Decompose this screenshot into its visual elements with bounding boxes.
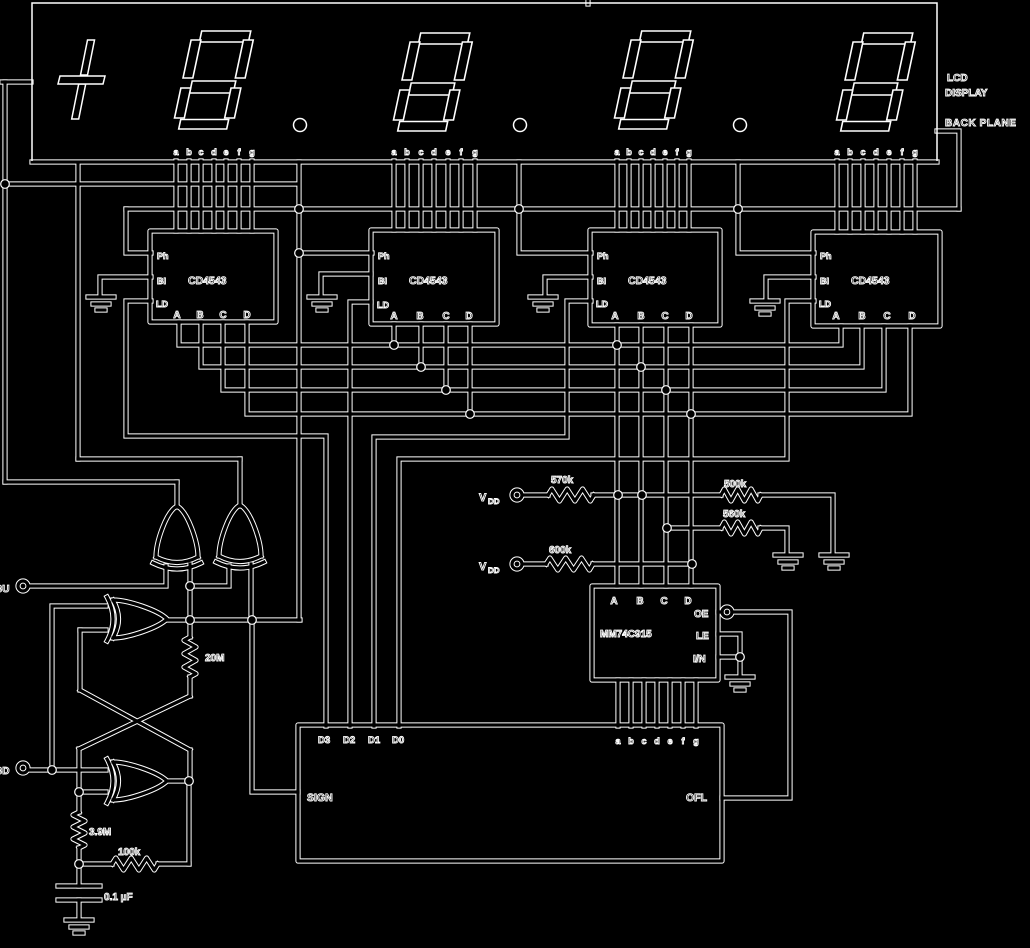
svg-text:DISPLAY: DISPLAY	[945, 88, 988, 99]
decimal point 2	[514, 119, 527, 132]
svg-text:D2: D2	[343, 735, 355, 746]
svg-text:A: A	[173, 310, 180, 321]
terminal VDD2	[512, 559, 522, 569]
input terminal labels	[0, 584, 9, 777]
svg-text:V: V	[479, 492, 487, 504]
svg-text:Ph: Ph	[597, 251, 609, 261]
wire: BCD bus A y345	[179, 322, 841, 345]
svg-text:A: A	[611, 311, 618, 322]
svg-text:D: D	[685, 311, 692, 322]
xor gate B (up)	[216, 505, 264, 568]
svg-text:C: C	[883, 311, 890, 322]
wire: MM74C915 outputs a-g	[618, 680, 696, 726]
VDD labels	[479, 492, 500, 575]
svg-text:BI: BI	[820, 276, 829, 286]
svg-text:MM74C915: MM74C915	[600, 629, 652, 640]
svg-text:D: D	[684, 596, 691, 607]
resistor value labels	[89, 475, 747, 903]
wire: gate A right input drop	[189, 564, 191, 620]
terminal VDD1	[512, 490, 522, 500]
svg-text:A: A	[390, 311, 397, 322]
wire: VDD2 600k chain	[523, 563, 692, 565]
svg-text:CD4543: CD4543	[851, 275, 890, 287]
wire: gate C upper input from D line	[52, 606, 106, 770]
wire: cross diagonal 1	[79, 696, 190, 792]
svg-text:DD: DD	[488, 566, 500, 575]
terminal D	[18, 763, 28, 773]
ground G1	[88, 297, 114, 310]
wire: U input line	[30, 566, 166, 586]
svg-text:B: B	[196, 310, 203, 321]
wire: VDD1 570k 500k chain	[523, 495, 833, 554]
wire: left rail x5	[4, 82, 6, 482]
svg-text:D3: D3	[318, 735, 330, 746]
segment letters under digits	[173, 147, 917, 746]
ground G3	[530, 297, 556, 310]
wire: segment bundle digit4	[837, 161, 915, 232]
wire: 20M leads	[189, 620, 191, 696]
wire: cross diagonal 2	[80, 630, 190, 781]
wire: 560k branch	[666, 528, 787, 554]
wire: segment bundle digit2	[394, 161, 475, 230]
svg-text:C: C	[661, 311, 668, 322]
wire: y482 to gate A output	[5, 481, 177, 483]
wire: 3.9M leads	[78, 792, 80, 864]
svg-text:B: B	[858, 311, 865, 322]
svg-text:B: B	[416, 311, 423, 322]
wire: gate A output drop	[176, 482, 178, 507]
svg-text:V: V	[479, 561, 487, 573]
wire: BCD bus C y390	[223, 322, 884, 390]
resistor R3 560k	[721, 522, 761, 534]
chip U4 CD4543 (digit 4)	[813, 232, 940, 326]
LCD display outline	[32, 3, 937, 161]
svg-text:C: C	[442, 311, 449, 322]
wire: segment bundle digit1	[176, 161, 252, 231]
wire: gate A dot to gate B left input	[190, 566, 229, 586]
plus sign	[58, 40, 105, 119]
svg-text:BD: BD	[0, 766, 9, 777]
decimal point 1	[294, 119, 307, 132]
wire: SIGN line	[252, 620, 298, 792]
chip1 labels	[156, 251, 832, 310]
wire: BI3 to ground	[545, 277, 591, 296]
wire: BCD bus B y367	[201, 322, 862, 367]
svg-text:A: A	[832, 311, 839, 322]
MM74C915 labels	[600, 596, 709, 665]
svg-text:Ph: Ph	[157, 251, 169, 261]
wire: LD2 to D2	[350, 302, 371, 726]
digit 3	[612, 31, 695, 129]
wire: decimal point 3 vertical and Ph chip4	[738, 162, 814, 253]
svg-text:BI: BI	[378, 276, 387, 286]
wire: chip3 ABCD to MM74C915	[617, 325, 691, 586]
svg-text:LD: LD	[156, 299, 168, 309]
wire: sign segment x78	[77, 163, 79, 459]
wire: display bottom border	[32, 161, 937, 163]
svg-text:D0: D0	[392, 735, 404, 746]
svg-text:CD4543: CD4543	[628, 275, 667, 287]
svg-text:D: D	[908, 311, 915, 322]
svg-text:100k: 100k	[118, 847, 141, 858]
svg-text:560k: 560k	[723, 509, 746, 520]
svg-text:C: C	[660, 596, 667, 607]
wire: Ph chip2	[299, 252, 372, 254]
wire: LE I/N tie to ground	[718, 634, 740, 676]
chip U1 CD4543 (digit 1)	[150, 231, 276, 322]
svg-text:OFL: OFL	[686, 792, 708, 804]
wire: y459 to gate B output	[78, 458, 240, 460]
wire: segment bundle digit3	[617, 161, 689, 230]
ground G7	[727, 677, 753, 690]
display labels	[945, 73, 1017, 129]
wire: BI1 to ground	[100, 277, 151, 296]
wire: BI2 to ground	[321, 274, 371, 296]
svg-text:B: B	[636, 596, 643, 607]
svg-text:CD4543: CD4543	[409, 275, 448, 287]
ground G2	[309, 297, 335, 310]
wire: LD4 to D0	[399, 301, 814, 726]
wire: gate B output drop	[239, 459, 241, 506]
svg-text:LD: LD	[596, 299, 608, 309]
wire: top stub	[587, 0, 589, 4]
wire: decimal point 1 / backplane vertical x299	[298, 162, 300, 620]
wire: chip2 ABCD taps	[394, 324, 470, 414]
wire: backplane from display right	[937, 131, 959, 209]
wire: gate B right input drop	[250, 564, 252, 620]
svg-text:LE: LE	[696, 631, 709, 642]
resistor R4 600k	[546, 558, 593, 570]
svg-text:BACK PLANE: BACK PLANE	[945, 118, 1017, 129]
ground G6	[775, 555, 801, 568]
xor gate C (right)	[107, 597, 167, 641]
chip U2 CD4543 (digit 2)	[371, 230, 497, 324]
resistor R5 20M	[184, 637, 196, 677]
svg-text:570k: 570k	[551, 475, 574, 486]
ground G5	[821, 555, 847, 568]
svg-text:LD: LD	[819, 299, 831, 309]
decimal point 3	[734, 119, 747, 132]
svg-text:500k: 500k	[724, 479, 747, 490]
svg-text:600k: 600k	[549, 545, 572, 556]
wire: plus-sign feed y82	[2, 81, 31, 83]
ground G4	[752, 301, 778, 314]
wire: gate C output y620	[167, 619, 300, 621]
svg-text:I/N: I/N	[693, 654, 706, 665]
svg-text:OE: OE	[694, 609, 709, 620]
wire: LD3 to D1	[374, 301, 591, 726]
wire: D input line	[30, 769, 106, 771]
wire: gate D lower input	[79, 791, 106, 793]
wire: BI4 to ground	[766, 277, 814, 300]
wire: 100k right riser	[188, 781, 190, 864]
chip U5 MM74C915	[592, 586, 718, 680]
wire: BCD bus D y414	[247, 322, 910, 414]
svg-text:BI: BI	[157, 276, 166, 286]
wire: horizontal y184	[5, 183, 298, 185]
wire: capacitor leads	[78, 864, 80, 919]
wire: OE to OFL	[718, 612, 790, 798]
svg-text:D: D	[465, 311, 472, 322]
svg-text:DD: DD	[488, 497, 500, 506]
xor gate A (up)	[153, 506, 201, 569]
svg-text:Ph: Ph	[820, 251, 832, 261]
svg-text:20M: 20M	[205, 653, 224, 664]
digit 4	[834, 33, 917, 131]
wire: decimal point 2 vertical and Ph chip3	[519, 162, 591, 253]
svg-text:LD: LD	[377, 300, 389, 310]
digit 1	[172, 31, 255, 129]
counter block (SIGN / OFL)	[298, 725, 722, 861]
svg-text:CD4543: CD4543	[188, 275, 227, 287]
svg-text:BI: BI	[597, 276, 606, 286]
svg-text:A: A	[610, 596, 617, 607]
capacitor C1 0.1uF	[58, 886, 100, 900]
wire: LD1 to D3	[126, 301, 326, 726]
wire: gate C lower input	[80, 629, 106, 631]
svg-text:D: D	[243, 310, 250, 321]
svg-text:SIGN: SIGN	[307, 792, 333, 804]
bottom box labels	[318, 735, 404, 746]
chip U3 CD4543 (digit 3)	[590, 230, 720, 325]
svg-text:C: C	[219, 310, 226, 321]
digit 2	[391, 33, 474, 131]
wire: gate D output	[167, 780, 189, 782]
xor gate D (right)	[107, 759, 167, 803]
resistor R6 3.9M	[73, 812, 85, 848]
svg-text:B: B	[637, 311, 644, 322]
terminal OE	[722, 607, 732, 617]
ground G8	[66, 920, 92, 933]
wire: backplane bus y209	[126, 208, 959, 210]
resistor R2 500k	[721, 489, 761, 501]
resistor R1 570k	[548, 489, 594, 501]
svg-text:0.1 µF: 0.1 µF	[104, 892, 133, 903]
wire: 100k leads	[79, 863, 189, 865]
svg-text:Ph: Ph	[378, 251, 390, 261]
svg-text:BU: BU	[0, 584, 9, 595]
svg-text:3.9M: 3.9M	[89, 827, 111, 838]
terminal U	[18, 581, 28, 591]
wire: Ph chip1	[126, 209, 151, 253]
svg-text:LCD: LCD	[947, 73, 968, 84]
resistor R7 100k	[112, 858, 158, 870]
svg-text:D1: D1	[368, 735, 381, 746]
